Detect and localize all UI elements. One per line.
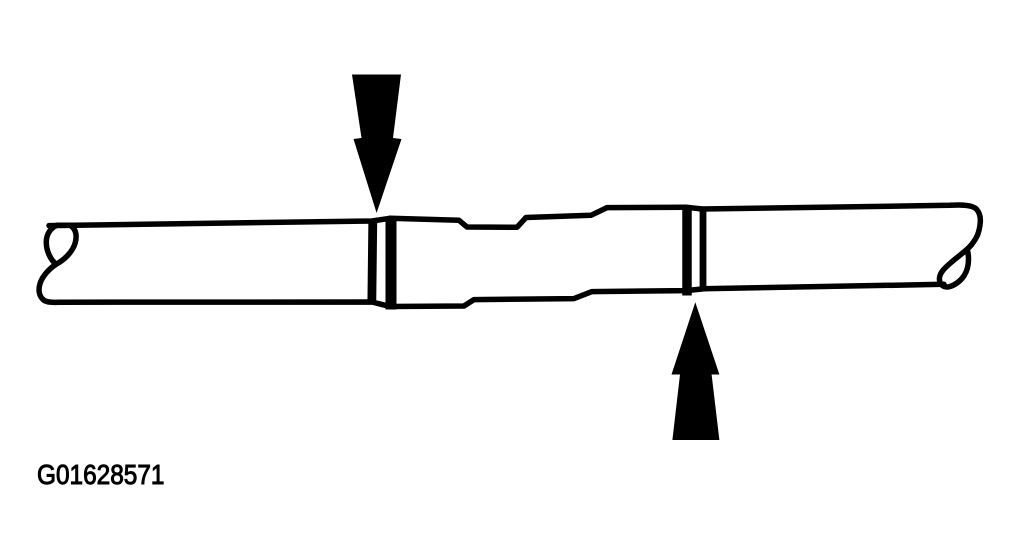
svg-text:G01628571: G01628571 (37, 459, 165, 490)
